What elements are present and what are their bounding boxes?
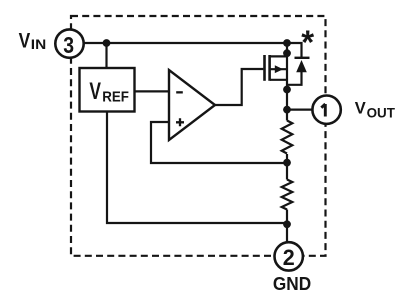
svg-text:V: V xyxy=(19,30,31,53)
svg-text:GND: GND xyxy=(273,273,311,294)
svg-text:2: 2 xyxy=(283,245,295,270)
svg-text:REF: REF xyxy=(102,89,129,106)
svg-text:*: * xyxy=(301,23,314,60)
svg-text:V: V xyxy=(355,99,367,118)
svg-text:IN: IN xyxy=(31,37,46,52)
svg-text:OUT: OUT xyxy=(367,106,396,121)
svg-text:3: 3 xyxy=(63,32,74,58)
svg-text:V: V xyxy=(89,78,101,105)
